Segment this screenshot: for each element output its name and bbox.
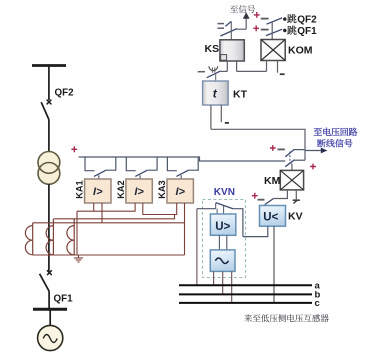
plus mark KM: [310, 164, 316, 170]
current transformer TA1: [25, 223, 32, 255]
wire L3 from TA2: [53, 215, 174, 219]
svg-text:I>: I>: [93, 186, 103, 198]
svg-text:KA2: KA2: [116, 180, 126, 198]
label trip QF1: [287, 26, 317, 37]
arrow to signal: [237, 12, 250, 29]
wire sine to c: [231, 271, 233, 302]
plus mark bus: [71, 146, 77, 152]
busbar bottom: [33, 308, 67, 311]
wire dc bus: [79, 157, 286, 161]
wire L1: [77, 203, 135, 211]
svg-text:U>: U>: [215, 221, 230, 233]
label trip QF2: [287, 14, 317, 25]
phase line b: [179, 293, 312, 295]
plus mark trip1: [254, 12, 260, 18]
current transformer TA3: [67, 219, 74, 255]
relay KOM: [261, 40, 285, 61]
wire L2 KA2-KA3: [143, 203, 177, 215]
contact trip QF1: [261, 29, 287, 36]
timer contact of KT: [198, 66, 221, 81]
label to-voltage-loop: [314, 128, 358, 136]
relay KT: [203, 81, 229, 105]
relay KA2: [116, 179, 153, 203]
contact of KA1: [85, 157, 116, 179]
breaker QF1: [40, 270, 52, 309]
svg-text:KVN: KVN: [214, 187, 235, 198]
wire KT to contact: [211, 129, 305, 160]
wire U to sine: [219, 235, 226, 250]
minus mark: [280, 73, 285, 75]
phase line a: [179, 284, 312, 286]
ground: [74, 255, 83, 262]
svg-text:c: c: [315, 298, 320, 309]
svg-text:U<: U<: [263, 212, 278, 224]
wire bus to QF2: [48, 66, 50, 101]
svg-text:KM: KM: [264, 175, 281, 187]
contact of KA2: [126, 157, 157, 179]
svg-text:I>: I>: [175, 186, 185, 198]
svg-text:QF2: QF2: [297, 14, 317, 25]
wire KVN to a: [196, 209, 198, 286]
wire ground bus: [33, 254, 185, 256]
contact of KV: [252, 193, 274, 205]
plus mark trip2: [253, 25, 259, 31]
wire bus to G: [49, 309, 51, 325]
contact of KS: [218, 21, 238, 39]
wire KM top pin: [291, 163, 293, 170]
label from-LV-PT: [244, 314, 329, 322]
contact KM double: [278, 149, 306, 166]
phase line c: [179, 302, 312, 304]
current transformer TA2: [46, 219, 53, 255]
svg-text:KA1: KA1: [75, 180, 85, 198]
svg-text:I>: I>: [134, 186, 144, 198]
wire KS pins: [221, 61, 267, 71]
svg-text:QF1: QF1: [54, 294, 74, 305]
contact of KVN: [197, 203, 243, 237]
svg-text:KA3: KA3: [157, 180, 167, 198]
source sine block: [210, 250, 235, 272]
wire KA1 right pin: [101, 203, 103, 223]
wire sine to b: [222, 271, 224, 294]
label broken-line-signal: [317, 139, 352, 147]
svg-text:QF1: QF1: [297, 26, 317, 37]
wire trip to KOM: [271, 22, 273, 40]
transformer T: [38, 152, 60, 185]
wire v1 to ground: [76, 211, 78, 255]
breaker QF2: [41, 100, 51, 152]
svg-text:QF2: QF2: [55, 88, 75, 99]
contact of KA3: [167, 157, 198, 179]
generator G: [38, 325, 63, 350]
label to-signal: [230, 5, 255, 13]
plus mark KM contact: [270, 145, 276, 151]
wire sine to a: [213, 271, 215, 285]
wire KA3 right pin: [184, 203, 186, 255]
wire KA1 left pin: [93, 203, 95, 211]
wire KM left pin: [274, 190, 288, 199]
wire KOM pins: [267, 61, 278, 73]
wire T to QF1: [48, 184, 50, 271]
wire KT pins: [211, 105, 221, 129]
minus mark: [225, 122, 229, 124]
arrow broken-wire signal: [305, 148, 327, 154]
wire KM right pin: [293, 190, 300, 204]
wire KV left pin: [243, 226, 268, 236]
svg-text:KS: KS: [205, 43, 220, 55]
svg-text:KOM: KOM: [288, 45, 313, 57]
wire KV right pin: [273, 226, 275, 303]
busbar top: [32, 64, 66, 67]
contact trip QF2: [261, 17, 287, 24]
relay KA3: [157, 179, 194, 203]
relay KS: [220, 40, 244, 61]
relay KM: [280, 170, 303, 190]
svg-text:KT: KT: [233, 89, 248, 101]
wire L4 from TA1: [33, 222, 185, 224]
relay KV (U&lt;): [260, 206, 286, 227]
svg-text:KV: KV: [288, 211, 303, 223]
relay U&gt;: [210, 214, 235, 235]
zone KVN dashed: [203, 200, 246, 278]
relay KA1: [75, 179, 112, 203]
